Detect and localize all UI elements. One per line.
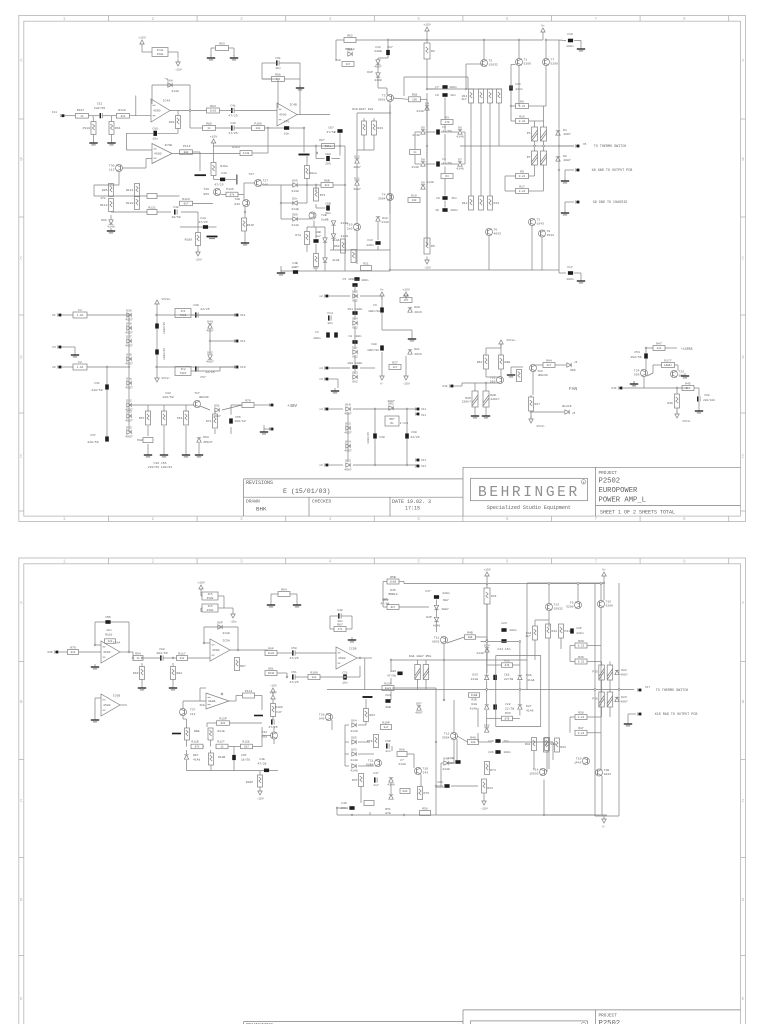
resistor R33 p2	[502, 716, 513, 721]
label D58 v	[332, 238, 340, 242]
wire IC4A out	[170, 110, 207, 112]
wire w	[485, 348, 487, 356]
svg-text:IC&: IC&	[199, 703, 205, 707]
node junction	[486, 583, 488, 585]
wire fb l drop	[261, 63, 263, 79]
wire R63 right	[229, 47, 235, 49]
IC RL relay	[385, 416, 399, 426]
label C35 p2 l	[391, 670, 397, 673]
capacitor C16	[509, 85, 513, 90]
svg-text:MR?: MR?	[389, 418, 394, 421]
svg-text:R85: R85	[102, 188, 108, 192]
svg-text:V+: V+	[602, 568, 606, 572]
resistor R127	[216, 744, 228, 749]
resistor R123b	[180, 197, 193, 206]
wire w	[353, 464, 418, 466]
svg-text:4148: 4148	[526, 709, 534, 713]
svg-text:R9?: R9?	[240, 664, 246, 668]
wire w	[244, 231, 246, 240]
wire w	[426, 100, 428, 246]
svg-text:4007: 4007	[125, 435, 133, 439]
wire loop right	[467, 77, 469, 89]
svg-text:BD239: BD239	[199, 395, 208, 399]
diode D64 p2	[351, 719, 357, 728]
wire vert 415	[414, 132, 416, 150]
capacitor C44b	[203, 225, 208, 229]
svg-text:C24 15n: C24 15n	[498, 647, 511, 651]
wire w	[510, 367, 512, 372]
svg-text:+15V: +15V	[210, 135, 218, 139]
svg-text:IC2: IC2	[180, 368, 185, 371]
svg-text:D10: D10	[352, 107, 358, 111]
svg-text:4148: 4148	[171, 89, 179, 93]
label C32bv	[162, 395, 173, 399]
capacitor C38	[373, 433, 377, 438]
wire vert 445d	[444, 167, 446, 174]
wire w	[330, 249, 390, 251]
power +15V p2 top	[483, 568, 491, 580]
resistor R10P p2	[381, 720, 392, 729]
connector X5	[575, 145, 579, 148]
power -15V low	[194, 249, 202, 262]
wire w	[519, 642, 521, 675]
resistor R41	[526, 626, 538, 640]
wire w	[128, 315, 130, 432]
svg-text:R20: R20	[403, 790, 408, 793]
capacitor C48c	[293, 270, 298, 274]
ground C42 g	[348, 637, 356, 642]
label R119 lbl	[247, 223, 255, 227]
ground R98	[172, 733, 181, 735]
svg-text:R91: R91	[115, 126, 121, 130]
label C4	[442, 157, 446, 161]
wire w	[315, 146, 317, 159]
label C37 p2v	[442, 591, 450, 595]
svg-text:BEHRINGER: BEHRINGER	[478, 485, 580, 501]
wire w	[262, 735, 271, 737]
wire w	[315, 267, 317, 272]
resistor P12	[479, 89, 484, 103]
wire w	[329, 378, 338, 380]
power V- p2	[602, 816, 606, 829]
wire w	[378, 87, 387, 89]
svg-text:112: 112	[190, 713, 196, 716]
wire diode row2d	[462, 163, 465, 165]
resistor R106	[271, 704, 276, 717]
capacitor C48	[228, 121, 237, 135]
svg-text:10n: 10n	[106, 629, 112, 632]
svg-text:C37: C37	[90, 433, 96, 437]
node junction	[435, 785, 437, 787]
wire w	[601, 680, 603, 692]
svg-text:1&&: 1&&	[468, 636, 473, 639]
svg-text:100/63: 100/63	[234, 419, 245, 423]
diode D47	[434, 605, 438, 609]
label thermo	[594, 145, 627, 149]
diode D17	[374, 60, 382, 69]
svg-text:100n: 100n	[313, 336, 321, 340]
svg-text:4007: 4007	[563, 132, 571, 136]
wire w	[480, 103, 482, 196]
resistor R109	[196, 233, 201, 246]
svg-text:R92: R92	[177, 671, 183, 675]
wire w	[570, 661, 575, 663]
wire bottom rail vas	[281, 270, 390, 272]
node junction	[389, 269, 391, 271]
label C55v2	[234, 419, 245, 423]
wire w	[694, 387, 699, 389]
svg-text:VCC2+: VCC2+	[506, 338, 515, 342]
capacitor C5c	[352, 283, 357, 287]
wire w	[210, 740, 212, 747]
transistor T8	[539, 229, 555, 237]
svg-text:R11B: R11B	[191, 741, 198, 744]
ground r gnd	[681, 373, 689, 378]
resistor R93	[133, 667, 145, 680]
svg-text:414&: 414&	[341, 234, 349, 238]
wire w	[652, 365, 654, 373]
capacitor C21	[493, 675, 497, 680]
svg-text:C71: C71	[342, 670, 348, 674]
wire R92 top	[177, 111, 179, 116]
wire w	[219, 367, 221, 371]
svg-text:P2502: P2502	[599, 1020, 621, 1024]
svg-text:6031: 6031	[432, 639, 440, 643]
svg-text:D23: D23	[621, 695, 627, 699]
capacitor C6r	[380, 307, 384, 312]
label C60v	[410, 435, 419, 439]
resistor R118	[191, 744, 203, 749]
power V+ p2	[602, 568, 606, 580]
svg-text:X11: X11	[240, 339, 246, 343]
wire w	[120, 704, 127, 706]
svg-text:95&: 95&	[262, 736, 268, 739]
label x11 r1	[421, 408, 426, 411]
node junction	[315, 145, 317, 147]
label C71 p2v	[342, 681, 348, 685]
wire w	[243, 195, 245, 200]
wire w	[546, 269, 559, 271]
label C70 lbl	[284, 120, 290, 124]
label PAL	[137, 438, 143, 442]
wire w	[574, 40, 581, 42]
svg-text:D5+: D5+	[292, 197, 298, 201]
wire vas rail	[214, 145, 346, 147]
capacitor C14	[327, 311, 333, 325]
wire w	[486, 659, 488, 661]
resistor R79	[68, 645, 79, 654]
resistor R43 p2	[544, 738, 549, 752]
svg-text:D&7: D&7	[443, 598, 449, 602]
wire fb	[128, 622, 130, 652]
wire w	[346, 676, 360, 678]
wire w	[447, 637, 465, 643]
connector X2b	[52, 365, 61, 369]
svg-text:+15PBS: +15PBS	[681, 347, 693, 351]
label C1v	[313, 336, 321, 340]
wire w	[698, 388, 700, 396]
svg-text:P126: P126	[226, 187, 234, 191]
svg-text:1000/35: 1000/35	[162, 348, 166, 360]
wire long bottom	[337, 814, 607, 816]
wire w	[427, 88, 438, 90]
svg-text:47/5B: 47/5B	[326, 130, 335, 134]
wire w	[588, 716, 602, 718]
label C16v	[515, 87, 523, 91]
wire T30 down	[118, 172, 120, 186]
wire w	[374, 439, 376, 465]
resistor R5	[424, 238, 435, 254]
svg-text:R71: R71	[206, 419, 212, 423]
svg-text:20%: 20%	[325, 162, 331, 166]
wire w	[263, 425, 265, 429]
wire w	[390, 660, 392, 672]
ground C17 gnd	[577, 278, 585, 283]
svg-text:C58: C58	[291, 646, 297, 650]
svg-text:X11: X11	[421, 414, 426, 417]
wire w	[600, 608, 602, 770]
node junction	[303, 127, 305, 129]
wire output line	[460, 145, 574, 147]
svg-text:D&7: D&7	[193, 754, 199, 757]
wire net6	[136, 195, 138, 198]
revisions block sheet 1	[244, 479, 463, 516]
svg-text:1P43: 1P43	[574, 760, 582, 764]
svg-text:BD230: BD230	[538, 373, 547, 377]
svg-text:C4?: C4?	[373, 771, 379, 775]
wire w	[345, 741, 349, 743]
label D26b	[526, 673, 532, 677]
svg-text:47/25: 47/25	[228, 114, 237, 118]
wire fb down	[189, 85, 191, 111]
svg-text:C13: C13	[367, 238, 373, 242]
label C45	[105, 615, 111, 619]
wire w	[451, 785, 478, 787]
wire fb2	[237, 627, 239, 650]
wire w	[486, 604, 488, 650]
svg-text:D4& 4&&7 R5&: D4& 4&&7 R5&	[409, 654, 431, 658]
capacitor C13	[375, 241, 380, 245]
svg-text:X11: X11	[421, 465, 426, 468]
svg-text:414&: 414&	[527, 678, 535, 682]
svg-text:220/50 100/63: 220/50 100/63	[148, 465, 172, 469]
capacitor C70	[284, 126, 289, 130]
wire supply	[177, 52, 179, 58]
svg-text:414&: 414&	[332, 238, 340, 242]
label IC1 lbl	[193, 303, 199, 307]
svg-text:R&9: R&9	[206, 121, 212, 125]
wire w	[387, 40, 389, 50]
ground P114	[254, 715, 263, 717]
svg-text:D6?: D6?	[319, 138, 325, 142]
svg-text:R&1a: R&1a	[325, 145, 332, 148]
resistor R147	[662, 358, 675, 367]
wire w	[390, 678, 392, 684]
wire w	[163, 405, 165, 412]
wire R86 right	[285, 78, 301, 80]
resistor F1	[73, 308, 87, 318]
svg-text:R26: R26	[403, 293, 409, 297]
label C26v	[503, 750, 511, 754]
svg-text:10n: 10n	[284, 132, 290, 136]
sheet border sheet 1	[19, 15, 746, 522]
svg-text:R70: R70	[245, 398, 251, 402]
wire w	[436, 600, 438, 606]
svg-text:C1: C1	[315, 330, 319, 334]
resistor R32 p2	[502, 659, 513, 668]
wire w	[360, 796, 362, 803]
label C22v2	[505, 711, 511, 715]
capacitor C43c	[325, 152, 331, 166]
label T26 lbl	[203, 187, 209, 191]
wire w	[411, 330, 413, 336]
label C9	[436, 196, 440, 200]
svg-text:17:15: 17:15	[405, 505, 420, 511]
svg-text:D22: D22	[621, 668, 627, 672]
wire net10	[197, 212, 199, 233]
wire w	[269, 770, 278, 772]
label D63v	[203, 440, 212, 444]
svg-text:IC4a: IC4a	[157, 49, 164, 52]
wire w	[356, 164, 358, 180]
svg-text:D44: D44	[207, 320, 213, 324]
wire w	[580, 273, 582, 278]
wire C66 to IC5	[126, 149, 152, 151]
wire w	[163, 426, 165, 452]
resistor R119	[242, 218, 247, 231]
capacitor C3	[436, 129, 440, 134]
resistor R12P	[217, 717, 230, 726]
node junction	[558, 169, 560, 171]
svg-text:+15V: +15V	[483, 568, 491, 572]
svg-text:T26: T26	[203, 187, 209, 191]
resistor R68b	[334, 239, 346, 253]
capacitor C52	[698, 396, 700, 401]
resistor R63	[216, 41, 229, 50]
resistor R27f	[529, 397, 541, 411]
wire w	[62, 346, 75, 348]
capacitor C37 p2	[434, 595, 439, 599]
svg-text:+15V: +15V	[138, 36, 146, 40]
transistor T6	[486, 228, 502, 236]
resistor R61	[305, 166, 310, 179]
wire w	[471, 88, 502, 90]
transistor T28	[309, 212, 316, 219]
wire w	[383, 581, 387, 583]
svg-text:D66: D66	[399, 747, 405, 751]
power VCC2- right	[675, 411, 679, 419]
power -15V supply arrow	[174, 59, 182, 72]
wire w	[457, 736, 468, 742]
wire w	[186, 740, 188, 747]
label VCC2- fan lbl	[536, 424, 545, 428]
wire input2	[89, 115, 100, 117]
wire w	[207, 722, 217, 724]
wire w	[474, 407, 476, 413]
label VCC2+ fan lbl	[506, 338, 515, 342]
svg-text:4148: 4148	[456, 167, 464, 171]
capacitor C42	[171, 205, 180, 219]
svg-text:22/5&: 22/5&	[504, 677, 513, 681]
svg-text:C88: C88	[371, 342, 377, 346]
resistor R8	[516, 99, 529, 108]
svg-text:47/25: 47/25	[268, 725, 277, 729]
wire w	[377, 77, 379, 88]
svg-text:-15V: -15V	[194, 258, 202, 262]
wire R84-C41	[220, 110, 232, 112]
wire w	[529, 190, 544, 192]
wire w	[552, 742, 554, 760]
node junction	[128, 366, 130, 368]
svg-text:R3: R3	[445, 115, 449, 119]
svg-text:R27: R27	[392, 360, 398, 364]
svg-text:1k82: 1k82	[268, 651, 275, 655]
svg-text:D36: D36	[126, 309, 132, 313]
svg-text:4007: 4007	[415, 711, 423, 715]
resistor R75 p2	[418, 787, 430, 800]
wire vert 445f	[444, 201, 446, 208]
svg-text:C38: C38	[379, 435, 385, 439]
svg-text:R1&9: R1&9	[185, 238, 193, 242]
wire w	[200, 687, 206, 689]
wire w	[281, 202, 293, 204]
svg-text:V-: V-	[602, 825, 606, 829]
diode D5	[421, 126, 425, 135]
label C8	[435, 93, 439, 97]
wire IC5 out2	[252, 152, 268, 154]
svg-text:X11: X11	[442, 384, 448, 388]
resistor R48	[468, 735, 479, 744]
svg-text:R123: R123	[182, 197, 190, 201]
diode D18	[376, 217, 380, 221]
capacitor C55	[229, 418, 233, 423]
resistor R50 p2	[387, 575, 399, 584]
wire w	[386, 88, 388, 95]
resistor P7	[527, 151, 538, 165]
label C35 p2 v	[387, 674, 396, 678]
label X17	[645, 686, 650, 689]
svg-text:R56: R56	[422, 806, 428, 810]
svg-text:C16: C16	[515, 82, 521, 86]
capacitor C12	[386, 50, 390, 55]
wire w	[200, 608, 202, 612]
wire w	[453, 740, 455, 764]
wire R91 up	[111, 116, 113, 122]
transistor T32b	[271, 732, 278, 739]
svg-text:220/50: 220/50	[162, 395, 173, 399]
svg-text:C18: C18	[567, 32, 573, 36]
svg-text:R9P: R9P	[268, 646, 274, 650]
diode D30	[125, 353, 133, 366]
wire w	[297, 218, 310, 220]
wire w	[601, 662, 603, 666]
wire thermo p2	[327, 689, 634, 691]
transistor T16	[574, 757, 589, 765]
node junction	[510, 105, 512, 107]
resistor R73	[314, 188, 319, 201]
resistor R34s	[607, 692, 613, 707]
IC IC1 7815	[175, 309, 191, 318]
ground rail gnd	[277, 270, 285, 275]
power -15V p2 c	[480, 798, 488, 811]
capacitor C60	[405, 433, 409, 438]
wire w	[555, 364, 566, 366]
wire w	[406, 439, 408, 465]
wire w	[405, 295, 407, 297]
resistor R98	[185, 728, 190, 740]
wire w	[197, 246, 199, 249]
svg-text:R1&P: R1&P	[246, 781, 253, 784]
